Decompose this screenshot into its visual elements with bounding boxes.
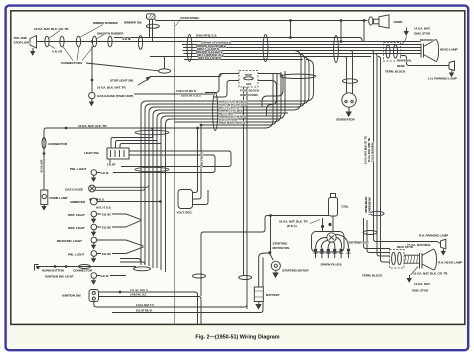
ground at RH parking lamp [441, 249, 445, 255]
ground at panel light lower [92, 256, 96, 262]
wire spark plug lead 1 [316, 238, 327, 249]
wire ammeter feed junction [126, 201, 161, 203]
wire fuse left lower loop [213, 81, 239, 98]
svg-text:E.B. NC: E.B. NC [102, 252, 111, 256]
spark plug 3 [326, 249, 330, 258]
ground at tank unit [90, 99, 94, 106]
horn button contact [35, 265, 40, 271]
light switch [107, 148, 129, 159]
battery [254, 287, 263, 302]
svg-text:16 GA. NAT. BLK. CR. TR.: 16 GA. NAT. BLK. CR. TR. [34, 27, 69, 31]
junction dot starter switch [269, 252, 271, 254]
wire coil to distributor [332, 216, 334, 232]
ground at battery [256, 302, 261, 309]
fuse capsule inside block [244, 77, 254, 80]
svg-text:GND. STUD: GND. STUD [414, 32, 431, 36]
connector capsule dimmer drops [146, 24, 159, 28]
horn connector oval [369, 17, 373, 25]
connector capsule horn wire [79, 265, 91, 269]
svg-text:HEAD LAMP: HEAD LAMP [440, 48, 458, 52]
wire tail light main harness [40, 41, 188, 43]
wire middle bundle row 7 [171, 71, 286, 119]
svg-text:IGNITION SW.: IGNITION SW. [62, 293, 81, 297]
ground at starting motor [273, 270, 278, 277]
svg-text:MOTOR SW.: MOTOR SW. [273, 246, 290, 250]
callout coil wire label [310, 220, 320, 224]
wire left fan corner 5 [157, 113, 163, 268]
svg-text:E.B. NC. FER. B: E.B. NC. FER. B [130, 289, 148, 293]
svg-text:RB NE: RB NE [397, 64, 405, 68]
svg-text:W. B. I E S. B.: W. B. I E S. B. [96, 206, 111, 210]
ground at dome lamp [42, 205, 46, 210]
svg-text:RIBBED RUBBER: RIBBED RUBBER [93, 21, 119, 25]
svg-text:LIGHT SW.: LIGHT SW. [84, 151, 99, 155]
wire light switch lower stub [109, 159, 111, 163]
wire diagonal connectors to stop light capsule [86, 63, 159, 71]
svg-text:CONNECTORS: CONNECTORS [61, 61, 82, 65]
wire ignition switch light [97, 275, 126, 277]
wire panel light upper [97, 172, 100, 174]
junction dot connector riser [65, 127, 67, 129]
ground at LH parking lamp [450, 71, 454, 77]
connector oval 5 [108, 36, 112, 47]
right run wire 1 park [371, 51, 441, 244]
LH head lamp [421, 40, 439, 62]
svg-text:DISTRIBUTOR: DISTRIBUTOR [349, 241, 370, 245]
wire horn drop a [290, 21, 292, 38]
wire volt reg riser a [193, 128, 198, 193]
starter switch arm [270, 253, 274, 260]
spark plug 5 [339, 249, 343, 258]
wire harness row C [182, 44, 421, 46]
wire spark plug lead 3 [328, 242, 330, 248]
ignition switch light [91, 273, 97, 279]
junction dot coil feed [270, 215, 272, 217]
dash panel line [174, 22, 176, 324]
wire RH ground stud [411, 267, 419, 276]
wire 16ga nat alk tr to light switch [150, 128, 153, 138]
RH head lamp [420, 249, 437, 270]
wire ignition row 3 to fuse feed [94, 302, 247, 308]
wire harness row A [114, 38, 362, 42]
ignition switch [89, 290, 99, 302]
wire middle bundle row 10 volt reg b [212, 74, 274, 128]
svg-text:GAS: GAS [246, 82, 252, 86]
right run wire 2 [375, 54, 391, 257]
wire horn button [36, 266, 136, 268]
stop light switch arrow [146, 77, 150, 80]
wire panel light lower [97, 253, 126, 255]
svg-text:AND COVER: AND COVER [240, 93, 259, 97]
right run wire 4 short [364, 218, 391, 249]
wire harness row F [184, 53, 422, 55]
wire distributor second feed [322, 218, 324, 232]
gas gauge dash [89, 185, 96, 192]
svg-text:COIL: COIL [342, 205, 349, 209]
svg-text:GENERATOR: GENERATOR [336, 118, 355, 122]
svg-text:E.B. NC: E.B. NC [102, 212, 111, 216]
wire middle bundle row 6 [167, 115, 282, 117]
spark plug 2 [320, 249, 324, 258]
svg-text:LOWER BEAM: LOWER BEAM [368, 197, 372, 215]
svg-text:DIMMER SW.: DIMMER SW. [124, 21, 142, 25]
right run wire 3 [378, 57, 390, 263]
ground at ignition switch light [92, 278, 96, 284]
ground stud RH symbol [407, 275, 411, 282]
callout line x b nt [49, 45, 56, 49]
svg-text:14 GA. BLK T. S: 14 GA. BLK T. S [136, 303, 154, 307]
wire fuse feed down 1 [243, 87, 245, 275]
svg-text:STOP LIGHT SW.: STOP LIGHT SW. [110, 79, 134, 83]
connector capsule right run upper [370, 211, 384, 215]
LH term block ovals [386, 45, 390, 58]
svg-text:INST. LIGHT: INST. LIGHT [68, 226, 85, 230]
dash panel callout [176, 20, 181, 27]
wire middle bundle row 8 [175, 72, 282, 122]
wire middle bundle row 5 [163, 112, 289, 114]
gas gauge tank unit [89, 92, 95, 98]
wire fan diagonal 1 [126, 214, 142, 220]
connector capsule left bundle upper [135, 130, 169, 134]
svg-text:TAIL AND: TAIL AND [14, 36, 28, 40]
dome lamp [41, 190, 48, 205]
stop light switch arm [138, 80, 148, 86]
svg-text:STOP: STOP [245, 73, 252, 77]
callout line smooth rubber [96, 35, 104, 40]
wire harness row G [150, 56, 371, 58]
wire spark plug lead 4 [334, 242, 335, 248]
svg-text:W B H NT BL D. B.: W B H NT BL D. B. [196, 34, 217, 38]
svg-text:CONNECTOR: CONNECTOR [48, 142, 68, 146]
starting motor [271, 261, 280, 270]
right run wire 5 short [367, 220, 390, 253]
wire spark plug lead 5 [336, 238, 342, 249]
wire ammeter to coil feed [201, 216, 332, 297]
callout line gauge wire [50, 31, 61, 39]
connector capsule right run lower [363, 231, 377, 235]
ammeter [90, 198, 97, 205]
wire left fan corner 1 [141, 101, 147, 265]
wire beam ind light [97, 239, 126, 241]
wire fan diagonal 2 [126, 220, 142, 227]
wire LH parking lamp feed [401, 56, 450, 66]
svg-text:14 GA. NAT. BLK. CR. TR.: 14 GA. NAT. BLK. CR. TR. [413, 272, 448, 276]
connector grommet smooth rubber [92, 36, 96, 47]
svg-text:E.B. NE: E.B. NE [102, 225, 111, 229]
wire starter switch drop [270, 216, 272, 252]
svg-text:RB W. 73# TR.: RB W. 73# TR. [397, 245, 414, 249]
inst light 1 [91, 211, 97, 217]
wire middle bundle row 2 [151, 57, 310, 105]
distributor cap [327, 233, 336, 242]
connector capsule at stop light [159, 69, 171, 73]
wire fuse right lower drop [258, 81, 277, 116]
wire ignition row 4 to starter feed [112, 258, 263, 313]
callout line ribbed rubber [81, 25, 104, 38]
svg-text:E.B. W.: E.B. W. [101, 171, 109, 175]
svg-text:2 B. NT: 2 B. NT [107, 162, 116, 166]
wire gas tank unit vertical [91, 46, 93, 92]
connector oval harness mid [263, 35, 268, 62]
wire harness row H [184, 59, 303, 61]
ground stud top right symbol [402, 28, 409, 45]
svg-text:X B. NT: X B. NT [52, 50, 63, 54]
svg-text:SMOOTH RUBBER: SMOOTH RUBBER [97, 32, 124, 36]
svg-text:16 GA. NAT. ALK. TR.: 16 GA. NAT. ALK. TR. [78, 124, 107, 128]
svg-text:SPARK PLUGS: SPARK PLUGS [320, 263, 341, 267]
connector capsule riser bundle [280, 74, 316, 78]
wire fan diagonal 4 [126, 247, 144, 254]
svg-text:PNL. LIGHT: PNL. LIGHT [70, 167, 86, 171]
junction dot gas tank wire [91, 79, 93, 81]
wire ignition row 2 [99, 297, 202, 325]
svg-text:STOP LIGHT: STOP LIGHT [14, 41, 32, 45]
wire inst light 2 [97, 226, 126, 228]
wire fuse feed down 2 [246, 87, 248, 309]
generator [342, 93, 356, 107]
spark plug 4 [333, 249, 337, 258]
svg-text:GND. STUD: GND. STUD [412, 289, 429, 293]
svg-text:17 B.D. NT. DN. TL: 17 B.D. NT. DN. TL [176, 89, 197, 93]
wire dimmer switch drop 1 [149, 19, 151, 37]
generator wire 1 [344, 57, 347, 94]
wire gas gauge row 2 [95, 188, 145, 191]
svg-text:(P & C): (P & C) [287, 224, 297, 228]
wire fuse right upper drop [258, 74, 283, 107]
wire middle bundle row 3 [155, 54, 306, 108]
wire fuse left upper loop [205, 74, 239, 93]
svg-text:CONNECTOR: CONNECTOR [73, 269, 93, 273]
RH parking lamp [441, 239, 446, 249]
svg-text:E.B. NL: E.B. NL [123, 37, 132, 41]
connector capsule left bundle bottom [134, 267, 151, 271]
wire light switch loop outer [121, 151, 231, 167]
svg-text:16 GA. NAT. BLK. TR.: 16 GA. NAT. BLK. TR. [279, 220, 308, 224]
ground at tail light [31, 48, 35, 55]
svg-text:RB W BI D B.: RB W BI D B. [420, 38, 435, 42]
RH head lamp cable hatched [404, 255, 419, 264]
volt reg stub [193, 190, 209, 205]
svg-text:HORN: HORN [394, 20, 404, 24]
wire spark plug lead 2 [321, 241, 327, 249]
wire left fan corner 2 [145, 104, 151, 265]
ground at panel light upper [92, 175, 96, 181]
connector oval 3 [76, 36, 80, 47]
generator wire 2 [350, 51, 353, 94]
connector capsule fuse feeds [239, 276, 252, 280]
svg-text:GAS GAUGE (TANK UNIT): GAS GAUGE (TANK UNIT) [97, 94, 133, 98]
svg-text:TERM. BLOCK: TERM. BLOCK [362, 274, 383, 278]
svg-text:GAS GAUGE: GAS GAUGE [65, 187, 83, 191]
svg-text:STARTING MOTOR: STARTING MOTOR [282, 269, 309, 273]
tail and stop light lamp [30, 36, 40, 49]
wire volt reg riser b [193, 125, 202, 199]
voltage regulator [178, 190, 193, 209]
svg-text:SPI E B G A W. NT. B: SPI E B G A W. NT. B [198, 56, 221, 60]
junction dot ignition row 1 [119, 291, 121, 293]
svg-text:E.B. NT BIU B: E.B. NT BIU B [136, 309, 152, 313]
wire inst light 1 [97, 213, 126, 215]
beam indicator light [91, 237, 97, 243]
wire horn drop b [341, 21, 364, 42]
wire left fan corner 7 [166, 119, 171, 272]
svg-text:R.H. PARKING LAMP: R.H. PARKING LAMP [419, 234, 448, 238]
connector capsule dome feed [42, 138, 46, 149]
svg-text:AMMETER: AMMETER [70, 200, 86, 204]
junction dots horn wire [54, 266, 56, 268]
svg-text:15 GA. NAT. GRN. TR.: 15 GA. NAT. GRN. TR. [367, 137, 371, 162]
inst light 2 [91, 224, 97, 230]
svg-text:12 GA. NATURAL: 12 GA. NATURAL [371, 142, 375, 162]
fuse block dashed cover [239, 71, 258, 88]
svg-text:INST. LIGHT: INST. LIGHT [68, 213, 85, 217]
svg-text:HORN BUTTON: HORN BUTTON [42, 269, 65, 273]
coil [329, 194, 338, 217]
wire middle bundle row 9 volt reg a [201, 73, 277, 125]
svg-text:R.H. HEAD LAMP: R.H. HEAD LAMP [438, 261, 462, 265]
spark plug 6 [346, 249, 350, 258]
RH term block ovals [392, 252, 396, 264]
svg-text:BATTERY: BATTERY [266, 293, 281, 297]
svg-text:14 GA. NAT. BLK CR. TR.: 14 GA. NAT. BLK CR. TR. [364, 135, 368, 164]
wire harness row D [183, 47, 421, 49]
svg-text:FUSE BLOCK: FUSE BLOCK [240, 89, 260, 93]
svg-text:STARTING: STARTING [273, 242, 288, 246]
wire tank unit to harness [134, 93, 213, 95]
wire fan diagonal 3 [126, 240, 144, 246]
LH parking lamp [449, 61, 455, 71]
wire dome lamp connector riser [44, 128, 212, 190]
ground at inst light 1 [92, 217, 96, 223]
svg-text:14 NA NC. B.S: 14 NA NC. B.S [130, 293, 147, 297]
svg-text:UPPER BEAM: UPPER BEAM [364, 196, 368, 213]
wire left fan corner 6 [161, 116, 167, 270]
dimmer switch [147, 14, 156, 19]
wire left bundle exit 1 [120, 259, 141, 266]
svg-text:VOLT. REG.: VOLT. REG. [177, 211, 193, 215]
wire stop light switch feed [150, 74, 239, 77]
LH term block dashed cover [384, 43, 401, 62]
wire light switch loop inner [113, 155, 215, 173]
wire middle bundle row 4 [159, 51, 302, 111]
svg-text:2 B.D.1 W.A.S.: 2 B.D.1 W.A.S. [200, 152, 204, 169]
ground at generator [346, 107, 351, 116]
distributor housing [312, 232, 345, 253]
horn wire [155, 19, 368, 20]
wire ignition row 1 [99, 292, 198, 324]
generator connector capsule [343, 79, 358, 83]
horn [374, 15, 390, 28]
wire left fan corner 4 [153, 110, 159, 268]
svg-text:L.H. PARKING LAMP: L.H. PARKING LAMP [428, 77, 457, 81]
junction dot dome feed [43, 153, 45, 155]
svg-text:16 GA. BLK. NAT. TR.: 16 GA. BLK. NAT. TR. [97, 86, 126, 90]
wire battery stem [259, 253, 269, 287]
callout lines connectors label [63, 46, 95, 61]
connector oval 1 [45, 36, 49, 47]
svg-text:18 GA. NT D. B. S: 18 GA. NT D. B. S [181, 93, 201, 97]
svg-text:14 GA. NAT.: 14 GA. NAT. [414, 27, 430, 31]
wire dimmer switch drop 2 [152, 19, 154, 41]
spark plug 1 [313, 249, 317, 258]
svg-text:E.B. W.: E.B. W. [101, 274, 109, 278]
wire left fan corner 3 [149, 107, 155, 266]
panel light upper [91, 170, 97, 176]
svg-text:14 GA. NAT.: 14 GA. NAT. [414, 282, 430, 286]
panel light lower [91, 251, 97, 257]
connector oval dimmer [138, 36, 142, 50]
wire harness row B to head lamp [112, 41, 421, 43]
connector capsule middle bundle [213, 93, 218, 131]
svg-text:PNL. LIGHT: PNL. LIGHT [68, 252, 84, 256]
svg-text:Fig. 2—(1950-51) Wiring Diagra: Fig. 2—(1950-51) Wiring Diagram [195, 335, 279, 341]
RH term block dashed cover [390, 250, 405, 269]
wire capsule up to harness [164, 57, 166, 69]
svg-text:TERM. BLOCK: TERM. BLOCK [385, 70, 406, 74]
connector capsule left bundle lower [135, 167, 169, 171]
wire gas gauge row 1 [95, 185, 149, 188]
wire spark plug lead 6 [336, 235, 349, 249]
svg-text:DNGS BLK NT BL D. B: DNGS BLK NT BL D. B [219, 120, 245, 124]
junction dots distributor feeds [321, 225, 323, 227]
wire light switch top terminal 1 [111, 138, 152, 149]
wire light switch top terminal 3 [120, 144, 161, 149]
wire left bundle exit 2 [120, 262, 145, 265]
connector oval harness right [334, 36, 339, 63]
wire middle bundle row 1 [147, 60, 314, 102]
connector oval harness left [187, 35, 192, 62]
svg-text:DOME LAMP: DOME LAMP [50, 196, 68, 200]
wire ammeter out [97, 201, 126, 203]
connector oval 2 [60, 36, 64, 47]
connector capsule ignition rows [193, 274, 206, 278]
wire harness row E [183, 50, 422, 52]
svg-text:RB NI DN BL: RB NI DN BL [397, 59, 412, 63]
svg-text:DASH PANEL: DASH PANEL [181, 16, 200, 20]
svg-text:B. D.: B. D. [99, 197, 105, 201]
wire light switch top terminal 2 [116, 141, 158, 149]
ground at beam ind light [92, 243, 96, 249]
ground at inst light 2 [92, 230, 96, 236]
svg-text:IGNITION SW. LIGHT: IGNITION SW. LIGHT [45, 274, 74, 278]
svg-text:BEAM IND. LIGHT: BEAM IND. LIGHT [57, 239, 82, 243]
svg-text:10 GA. NAT.: 10 GA. NAT. [40, 159, 44, 173]
